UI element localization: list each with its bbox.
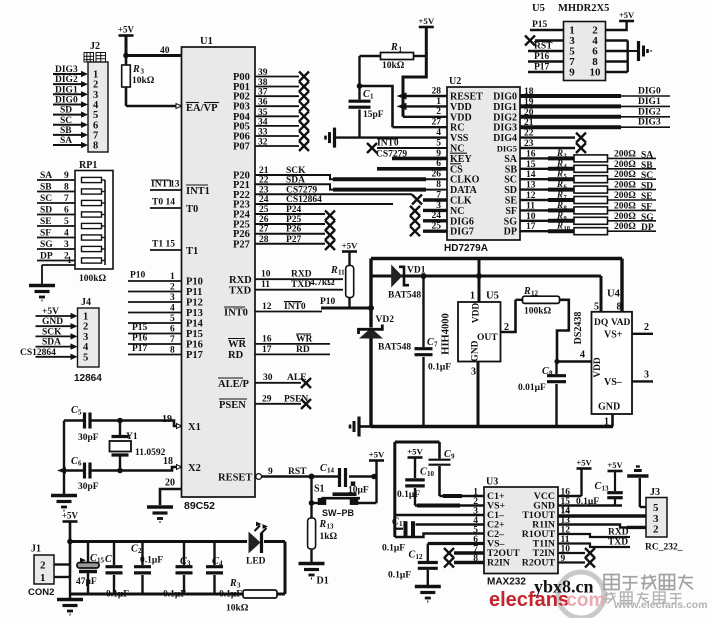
svg-text:SG: SG	[504, 216, 518, 227]
wire PSEN (pin 29, unconnected)	[219, 395, 311, 412]
svg-text:20: 20	[524, 108, 534, 118]
svg-text:15: 15	[526, 160, 536, 170]
svg-text:30pF: 30pF	[78, 482, 99, 492]
svg-text:5: 5	[78, 409, 82, 417]
svg-text:0.1μF: 0.1μF	[382, 544, 405, 554]
svg-text:9: 9	[64, 171, 69, 181]
wire TXD (pin 11)	[229, 280, 343, 297]
resistor R6 200ohm (SD)	[520, 179, 656, 193]
svg-text:34: 34	[258, 117, 268, 127]
capacitor C14 10uF	[320, 463, 369, 496]
svg-text:T0 14: T0 14	[152, 198, 175, 208]
svg-text:J4: J4	[81, 297, 91, 308]
svg-text:C: C	[595, 481, 602, 492]
wire rail right side	[284, 542, 287, 595]
diode VD1 BAT548	[388, 265, 426, 301]
resistor R4 200ohm (SB)	[520, 158, 656, 172]
svg-text:DIG1: DIG1	[493, 102, 517, 113]
capacitor C8 0.01uF	[518, 362, 566, 427]
svg-text:10: 10	[261, 270, 271, 280]
svg-text:22: 22	[524, 129, 534, 139]
wire DIG5 unconnected	[520, 139, 586, 153]
svg-text:P17: P17	[132, 344, 148, 354]
svg-text:29: 29	[262, 395, 272, 405]
svg-text:TXD: TXD	[291, 280, 311, 290]
svg-text:INT0: INT0	[377, 139, 399, 149]
svg-text:U5: U5	[486, 291, 499, 302]
svg-text:10kΩ: 10kΩ	[226, 604, 249, 614]
svg-text:33: 33	[258, 128, 268, 138]
svg-text:SG: SG	[641, 213, 654, 223]
svg-text:P07: P07	[233, 142, 250, 153]
svg-text:U2: U2	[449, 76, 461, 87]
wire C11 left	[395, 528, 403, 530]
svg-text:SB: SB	[641, 161, 653, 171]
LED D1	[246, 522, 268, 567]
svg-text:0.01μF: 0.01μF	[518, 383, 546, 393]
svg-text:DIG1: DIG1	[638, 97, 661, 107]
svg-text:VDD: VDD	[450, 102, 472, 113]
svg-text:DIG6: DIG6	[450, 216, 474, 227]
svg-text:0.1μF: 0.1μF	[219, 590, 242, 600]
svg-text:RST: RST	[288, 467, 307, 477]
wire +5V to pin 40	[123, 36, 181, 59]
wire J1 pin1 to ground	[54, 577, 70, 598]
svg-text:1kΩ: 1kΩ	[320, 532, 338, 542]
svg-text:DIG4: DIG4	[493, 133, 517, 144]
svg-text:13: 13	[170, 180, 180, 190]
svg-text:R: R	[556, 221, 563, 231]
svg-text:2: 2	[40, 560, 46, 572]
svg-text:SF: SF	[641, 202, 652, 212]
svg-text:P12: P12	[186, 298, 203, 309]
wire P15 to U5	[530, 20, 564, 30]
svg-text:12: 12	[531, 290, 539, 298]
svg-text:21: 21	[524, 118, 534, 128]
svg-text:R: R	[556, 169, 563, 179]
wire pin 20 to ground	[160, 489, 182, 505]
watermark circle	[558, 572, 604, 618]
svg-text:SC: SC	[641, 171, 653, 181]
svg-text:1: 1	[67, 256, 72, 266]
svg-text:14: 14	[526, 170, 536, 180]
svg-text:9: 9	[451, 453, 455, 461]
svg-text:MAX232: MAX232	[487, 577, 526, 588]
capacitor C6 30pF	[71, 456, 99, 492]
svg-text:4: 4	[580, 350, 585, 361]
svg-text:RD: RD	[228, 350, 244, 361]
crystal Y1 11.0592	[110, 421, 166, 471]
watermark elecfans gray CJK	[604, 575, 708, 612]
svg-text:C: C	[444, 449, 451, 460]
svg-text:INT0: INT0	[284, 302, 306, 312]
wire sensor frame top (VAD net)	[371, 259, 622, 312]
svg-text:C: C	[131, 544, 138, 555]
svg-text:200Ω: 200Ω	[614, 222, 636, 232]
wire P26 unconnected	[255, 230, 335, 240]
svg-text:BAT548: BAT548	[378, 343, 411, 353]
svg-text:T0: T0	[186, 204, 198, 215]
svg-text:LED: LED	[246, 557, 266, 567]
wire R1IN to J3 pin2	[558, 525, 646, 528]
svg-text:200Ω: 200Ω	[614, 201, 636, 211]
connector J3 body	[645, 487, 683, 553]
svg-text:SC: SC	[504, 175, 517, 186]
svg-text:elecfans: elecfans	[489, 589, 569, 611]
resistor network RP1 100k	[37, 160, 113, 284]
svg-text:19: 19	[162, 414, 172, 425]
svg-text:P15: P15	[186, 329, 203, 340]
capacitor C2 0.1uF	[131, 542, 163, 595]
svg-text:VSS: VSS	[450, 133, 469, 144]
svg-text:200Ω: 200Ω	[614, 160, 636, 170]
IC U1 89C52 body	[182, 36, 256, 512]
pins X1 X2 20 labels	[162, 414, 201, 489]
wire sensor VDD drop	[470, 259, 499, 303]
svg-text:RESET: RESET	[218, 473, 252, 484]
svg-text:200Ω: 200Ω	[614, 170, 636, 180]
wire S1 left	[309, 477, 318, 519]
svg-text:12: 12	[526, 191, 536, 201]
svg-text:+5V: +5V	[607, 460, 623, 470]
svg-text:5: 5	[83, 352, 88, 363]
svg-text:R: R	[330, 265, 338, 276]
svg-text:10: 10	[590, 67, 602, 79]
power +5V (J1)	[62, 511, 79, 522]
svg-text:100kΩ: 100kΩ	[79, 274, 107, 284]
junction (RST node)	[309, 474, 315, 480]
svg-text:U4: U4	[607, 289, 621, 300]
svg-text:6: 6	[78, 460, 82, 468]
svg-text:DIG2: DIG2	[638, 107, 661, 117]
svg-text:VAD: VAD	[611, 318, 630, 328]
svg-text:C: C	[212, 556, 219, 567]
svg-text:P11: P11	[186, 287, 202, 298]
svg-text:9: 9	[268, 467, 273, 477]
wire C10 to pin2	[415, 504, 484, 506]
power +5V (U5 pin2)	[619, 10, 635, 21]
svg-text:16: 16	[526, 149, 536, 159]
connector U5 pin numbers	[569, 25, 601, 79]
wire VD1 output (DQ net)	[371, 276, 601, 312]
svg-text:RD: RD	[296, 345, 310, 355]
svg-text:SE: SE	[505, 196, 518, 207]
svg-text:DIG5: DIG5	[497, 144, 517, 154]
wire VSS to ground	[335, 136, 448, 138]
svg-text:DIG1: DIG1	[55, 85, 78, 95]
power +5V (C13)	[607, 460, 623, 471]
IC U2 pin names and numbers	[432, 86, 484, 237]
wire GND pin15 to C13	[558, 497, 622, 507]
svg-text:WR: WR	[296, 335, 313, 345]
svg-text:10: 10	[526, 212, 536, 222]
svg-text:VDD: VDD	[593, 357, 603, 378]
svg-text:VS+: VS+	[604, 330, 623, 341]
svg-text:6: 6	[64, 206, 69, 216]
ground (crystal)	[51, 496, 77, 511]
svg-text:R2IN: R2IN	[487, 558, 510, 569]
svg-text:11: 11	[338, 269, 345, 277]
wire C11 to pin4	[416, 523, 485, 525]
svg-text:CS: CS	[450, 164, 463, 175]
svg-text:HD7279A: HD7279A	[444, 243, 488, 254]
wire CS stub (pin 6)	[377, 167, 447, 171]
svg-text:X1: X1	[188, 422, 201, 433]
svg-text:38: 38	[258, 78, 268, 88]
svg-text:DIG0: DIG0	[493, 92, 517, 103]
resistor R3 10k (LED)	[226, 578, 277, 614]
wires P20-P27 labels	[233, 166, 322, 250]
wire +5V down	[425, 27, 428, 56]
svg-text:10kΩ: 10kΩ	[382, 61, 405, 71]
svg-text:32: 32	[258, 138, 268, 148]
svg-text:36: 36	[258, 98, 268, 108]
svg-text:89C52: 89C52	[184, 500, 215, 512]
svg-text:4: 4	[170, 304, 175, 314]
wire T1IN (TXD)	[558, 538, 630, 548]
wire DIG4 unconnected	[520, 129, 586, 143]
wire C5 to X1	[90, 418, 182, 426]
wire INT0 (pin 12)	[224, 302, 322, 319]
wire RST to U5	[528, 42, 564, 52]
svg-text:47μF: 47μF	[76, 577, 97, 587]
capacitor C12	[388, 550, 438, 586]
svg-text:+5V: +5V	[369, 450, 385, 460]
wire P24 unconnected	[255, 211, 335, 221]
svg-text:+5V: +5V	[118, 25, 135, 35]
wire DIG7 stub (pin 25)	[410, 226, 447, 236]
svg-text:C: C	[409, 550, 416, 561]
svg-text:TXD: TXD	[229, 286, 252, 297]
svg-text:VD2: VD2	[376, 315, 395, 325]
svg-text:7: 7	[434, 341, 438, 349]
svg-text:RXD: RXD	[229, 275, 252, 286]
wires P00-P07 (pins 39-32, unconnected)	[233, 68, 309, 153]
svg-text:8: 8	[93, 141, 98, 152]
svg-text:J1: J1	[31, 544, 41, 555]
svg-text:R: R	[523, 286, 531, 297]
svg-text:0.1μF: 0.1μF	[106, 590, 129, 600]
svg-text:SC: SC	[40, 194, 52, 204]
svg-text:P16: P16	[186, 340, 203, 351]
svg-text:1: 1	[40, 572, 46, 584]
svg-text:C: C	[427, 337, 434, 348]
svg-text:8: 8	[436, 180, 441, 190]
wire INT0 to U2 (KEY int)	[367, 139, 447, 154]
capacitor C4 0.1uF	[206, 542, 242, 600]
resistor R12 100k	[516, 286, 560, 317]
svg-text:INT1: INT1	[186, 186, 210, 197]
svg-text:CLKO: CLKO	[450, 175, 480, 186]
svg-text:SA: SA	[504, 154, 518, 165]
svg-text:SF: SF	[40, 229, 51, 239]
svg-text:D1: D1	[317, 576, 329, 587]
svg-text:17: 17	[262, 345, 272, 355]
watermark elecfans red	[489, 589, 605, 611]
ground (U2 VSS)	[326, 128, 335, 148]
svg-text:19: 19	[524, 97, 534, 107]
svg-text:C: C	[320, 463, 327, 474]
svg-text:1: 1	[112, 558, 116, 566]
svg-text:P27: P27	[233, 239, 250, 250]
svg-text:12: 12	[262, 302, 272, 312]
label EA/VP	[186, 103, 219, 115]
svg-text:2: 2	[644, 322, 649, 333]
svg-text:www.elecfans.com: www.elecfans.com	[613, 599, 708, 611]
svg-text:5: 5	[64, 217, 69, 227]
wire T1 (pin 15)	[150, 240, 198, 258]
capacitor C7 0.1uF	[415, 276, 452, 427]
svg-text:P10: P10	[130, 271, 146, 281]
svg-text:SA: SA	[641, 150, 653, 160]
svg-text:DIG3: DIG3	[638, 118, 661, 128]
resistor R11 4.7k	[310, 252, 354, 309]
svg-text:RC_232_: RC_232_	[645, 543, 683, 553]
svg-text:R: R	[556, 210, 563, 220]
svg-text:13: 13	[327, 523, 335, 531]
svg-text:C: C	[105, 554, 112, 565]
capacitor C10	[397, 458, 435, 506]
wire R3 to EA/VP pin	[126, 104, 182, 109]
svg-text:DIG3: DIG3	[493, 123, 517, 134]
connector J1 CON2	[28, 544, 54, 599]
wire J1 pin2 to +5V	[54, 563, 70, 565]
svg-text:P17: P17	[534, 63, 550, 73]
wire DIG6 stub (pin 24)	[410, 216, 447, 226]
svg-text:20: 20	[165, 478, 175, 489]
svg-text:37: 37	[258, 88, 268, 98]
wire ALE (pin 30, unconnected)	[218, 373, 311, 390]
svg-text:RESET: RESET	[450, 92, 483, 103]
ground (J3, inverted)	[627, 467, 648, 477]
svg-text:R: R	[556, 179, 563, 189]
svg-text:WR: WR	[228, 339, 247, 350]
capacitor C3 0.1uF	[163, 542, 193, 600]
svg-text:P16: P16	[132, 334, 148, 344]
wire ground rail bottom	[70, 593, 285, 596]
svg-text:10: 10	[427, 470, 435, 478]
svg-text:TXD: TXD	[608, 538, 628, 548]
ground (R13)	[299, 564, 325, 579]
svg-text:C: C	[180, 556, 187, 567]
wire RD (pin 17)	[228, 345, 330, 361]
svg-text:3: 3	[141, 68, 145, 76]
svg-text:8: 8	[64, 183, 69, 193]
svg-text:1: 1	[470, 291, 475, 302]
svg-text:2: 2	[138, 547, 142, 555]
wire DS2438 VS+ (pin 2)	[632, 322, 653, 334]
resistor R5 200ohm (SC)	[520, 169, 656, 183]
wires DIG0-DIG3 nets	[520, 87, 670, 129]
svg-text:SCK: SCK	[42, 327, 62, 337]
IC U3 pin names and numbers	[473, 488, 570, 569]
svg-text:4.7kΩ: 4.7kΩ	[310, 278, 335, 288]
ground (J1)	[57, 600, 83, 615]
wire +5V stem	[69, 522, 72, 578]
svg-text:35: 35	[258, 108, 268, 118]
power +5V (R11)	[342, 241, 358, 252]
svg-text:DIG3: DIG3	[55, 65, 78, 75]
resistor R7 200ohm (SE)	[520, 190, 656, 204]
svg-text:10kΩ: 10kΩ	[132, 76, 155, 86]
svg-text:200Ω: 200Ω	[614, 191, 636, 201]
svg-text:39: 39	[258, 68, 268, 78]
ground (U5, sideways)	[639, 41, 652, 61]
wire R2OUT unconnected	[558, 558, 595, 568]
svg-text:3: 3	[170, 293, 175, 303]
wire sensor frame left	[368, 259, 374, 427]
label DS2438 VS pins	[604, 330, 623, 389]
svg-text:5: 5	[436, 138, 441, 148]
svg-text:3: 3	[64, 240, 69, 250]
capacitor C1 15pF	[349, 86, 384, 138]
junction (C7 node)	[421, 273, 427, 279]
IC U3 MAX232 body	[484, 477, 558, 588]
svg-text:4: 4	[219, 560, 223, 568]
wire pin7 unconnected	[444, 548, 484, 558]
capacitor C15 47uF	[76, 542, 105, 595]
wire net SDA (P21 to U2 DATA)	[255, 184, 447, 189]
wire C14 to +5V	[349, 461, 377, 480]
svg-text:GND: GND	[471, 340, 481, 361]
svg-text:SA: SA	[40, 171, 52, 181]
svg-text:VDD: VDD	[450, 112, 472, 123]
power +5V (R1)	[418, 16, 434, 27]
wire net CS7279 (P22)	[255, 193, 412, 195]
svg-text:+5V: +5V	[42, 307, 59, 317]
wire P17 to U5	[528, 63, 564, 73]
svg-text:SG: SG	[40, 240, 53, 250]
wire loop bottom to pin5	[395, 534, 484, 538]
svg-text:C: C	[420, 467, 427, 478]
svg-text:R: R	[556, 200, 563, 210]
svg-text:0.1μF: 0.1μF	[163, 590, 186, 600]
svg-text:GND: GND	[598, 402, 620, 413]
svg-text:16: 16	[262, 335, 272, 345]
svg-text:P15: P15	[532, 20, 548, 30]
svg-text:1: 1	[170, 272, 175, 282]
svg-text:14: 14	[561, 506, 571, 516]
svg-text:GND: GND	[42, 317, 63, 327]
svg-text:U5: U5	[532, 3, 545, 14]
svg-text:3: 3	[644, 370, 649, 381]
connector J4 (12864 LCD)	[20, 297, 102, 384]
wire pin8 unconnected	[444, 558, 484, 568]
svg-text:SD: SD	[504, 185, 517, 196]
svg-text:DP: DP	[641, 223, 654, 233]
svg-text:VS–: VS–	[604, 377, 623, 388]
svg-text:100kΩ: 100kΩ	[524, 307, 552, 317]
svg-text:30pF: 30pF	[78, 433, 99, 443]
wire T1OUT to J3 pin3	[558, 506, 646, 516]
svg-text:SB: SB	[40, 183, 52, 193]
wire CS7279 to CLK (pin 7)	[412, 195, 447, 205]
svg-text:200Ω: 200Ω	[614, 212, 636, 222]
svg-text:R: R	[319, 519, 327, 530]
wire P16 to U5	[528, 52, 564, 62]
svg-text:12: 12	[416, 553, 424, 561]
wire DS2438 VS- (pin 3)	[632, 370, 653, 382]
wire Y1 to X2	[90, 467, 182, 473]
svg-text:8: 8	[549, 370, 553, 378]
svg-text:P15: P15	[132, 323, 148, 333]
wire U5 pin2 to +5V	[606, 21, 627, 30]
svg-text:DATA: DATA	[450, 185, 478, 196]
svg-text:SA: SA	[60, 136, 72, 146]
wire RXD (pin 10)	[229, 270, 343, 287]
wire net SCK (P20 to U2 CLKO)	[255, 175, 447, 179]
svg-text:18: 18	[524, 87, 534, 97]
